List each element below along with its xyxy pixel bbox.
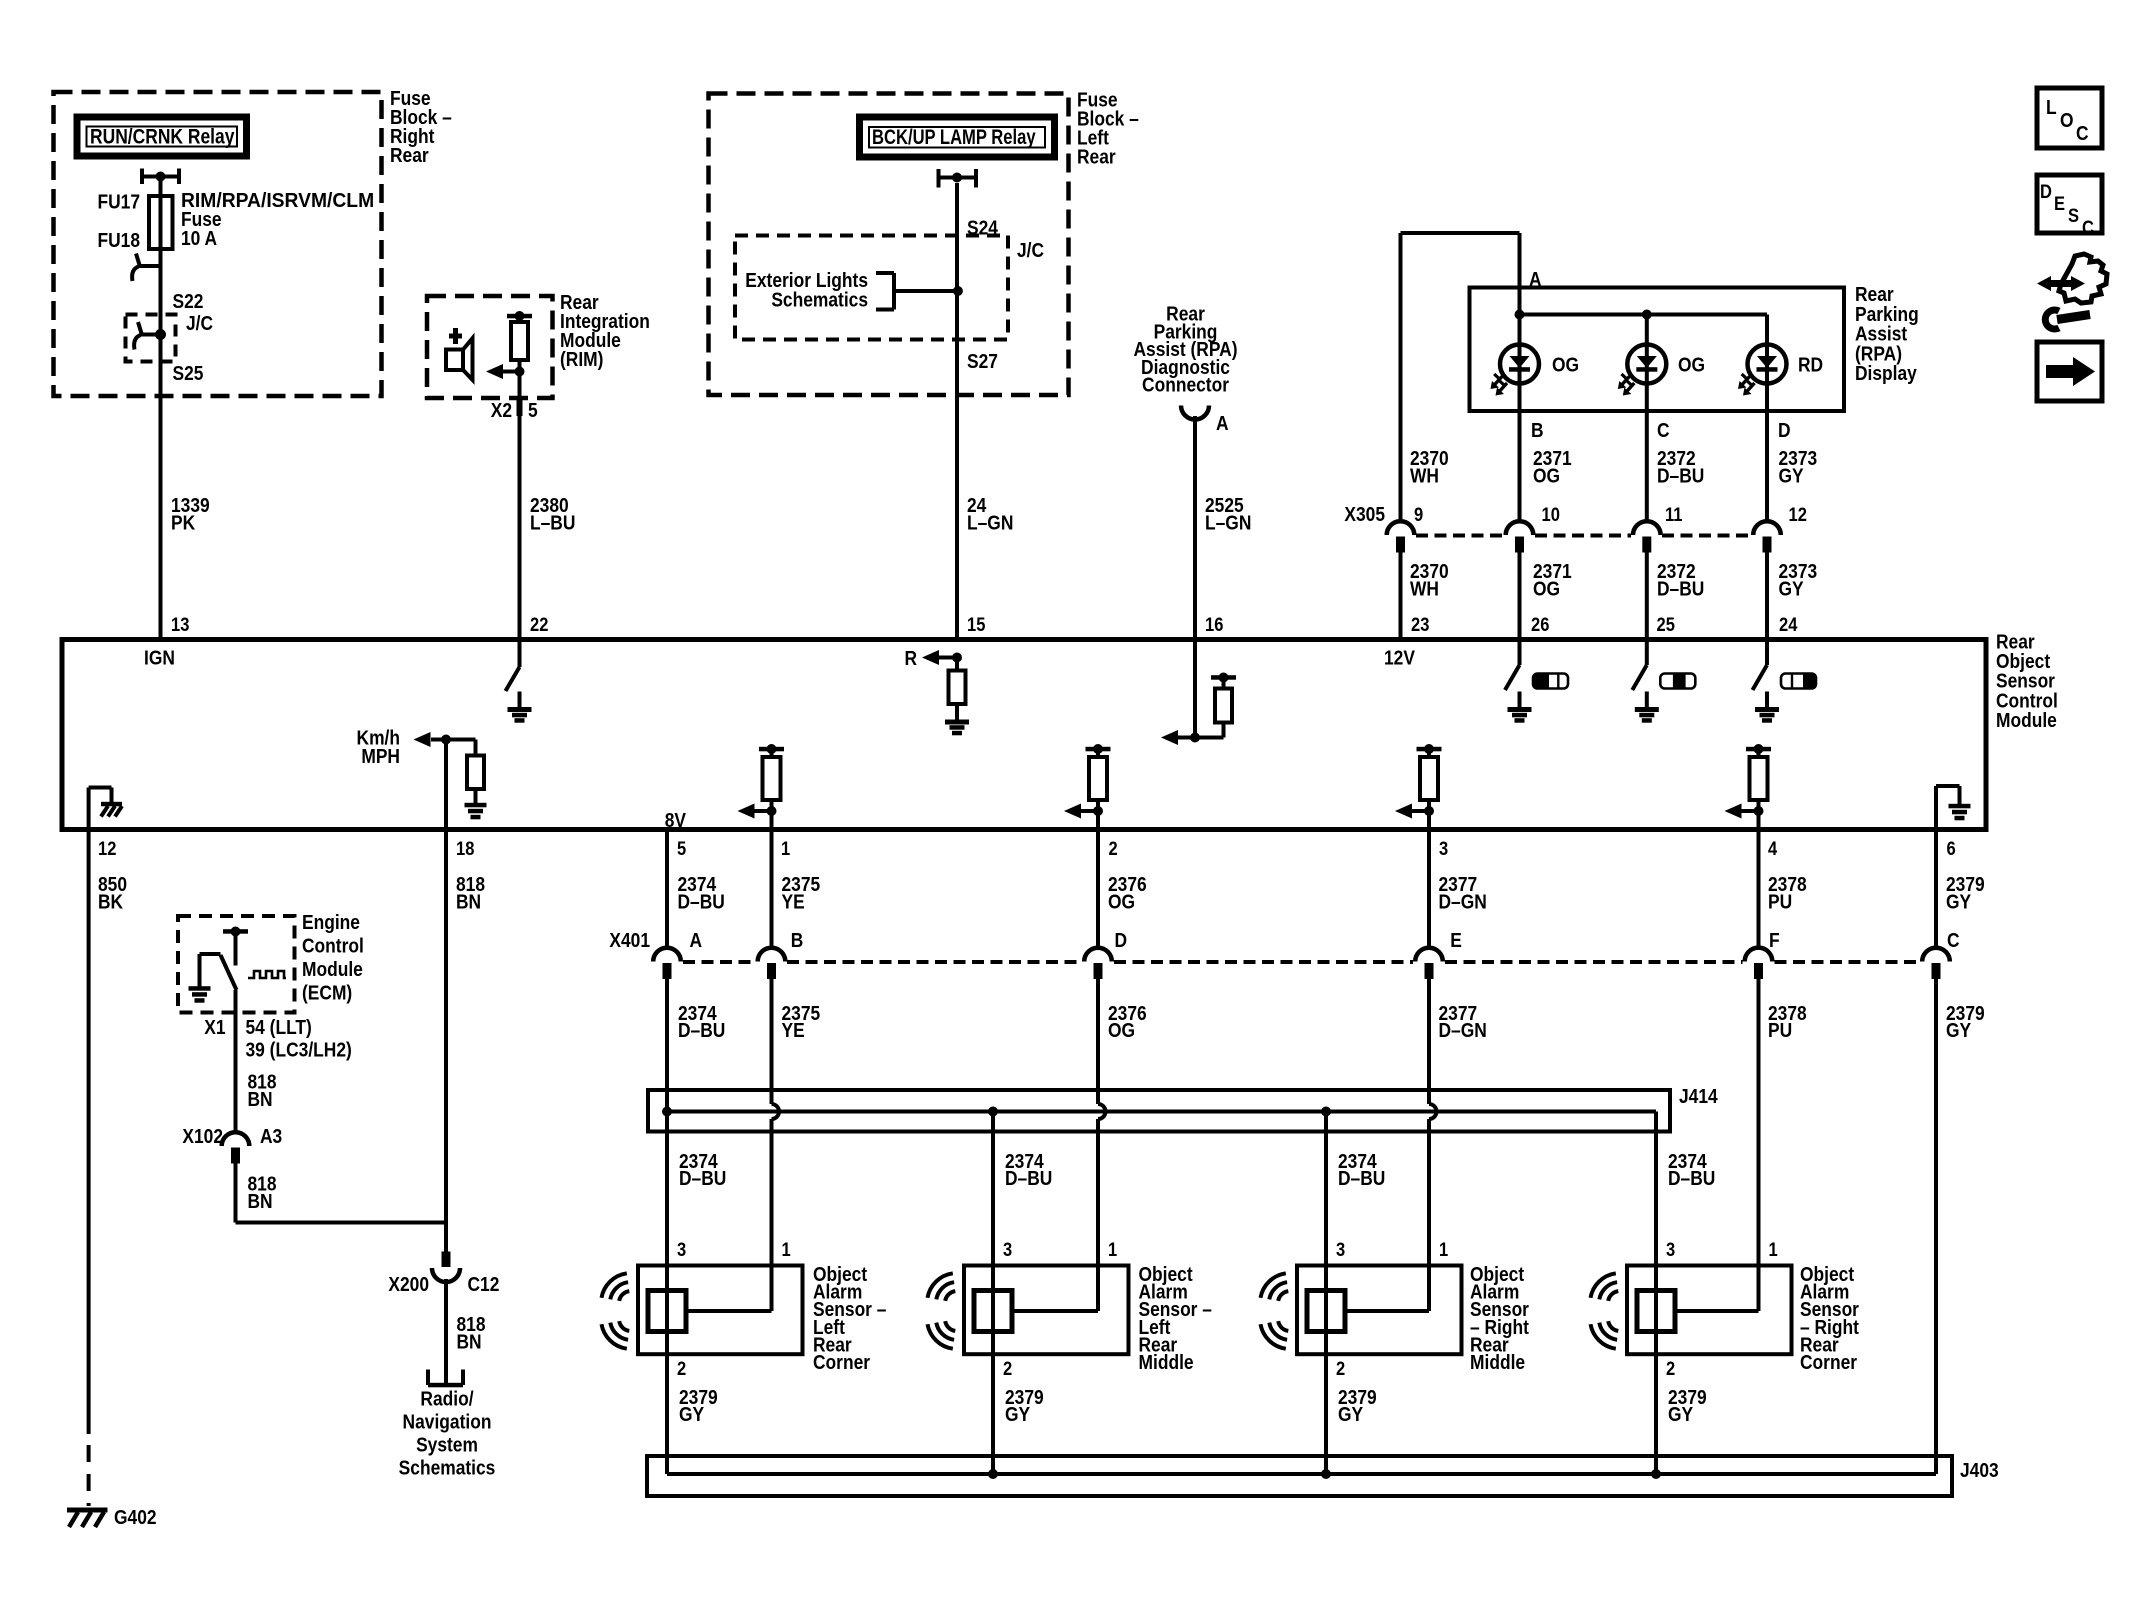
svg-text:(ECM): (ECM)	[302, 981, 352, 1003]
svg-text:25: 25	[1657, 614, 1675, 635]
svg-text:X1: X1	[204, 1016, 225, 1038]
svg-text:24: 24	[1779, 614, 1797, 635]
svg-text:GY: GY	[1005, 1403, 1031, 1425]
wire 2379 from sensor 4 pin 2	[1654, 1354, 1658, 1474]
svg-text:RUN/CRNK Relay: RUN/CRNK Relay	[90, 125, 234, 148]
svg-text:A: A	[690, 929, 703, 951]
connector X200 plug and cup C12	[442, 1252, 451, 1268]
J414 junction dots	[662, 1107, 672, 1117]
svg-text:FU17: FU17	[97, 190, 140, 212]
svg-text:O: O	[2060, 109, 2074, 131]
wire pin 23 stub	[1399, 640, 1403, 643]
wire 2376 to sensor 2 pin 1 with hop over J414	[1096, 978, 1100, 1104]
svg-text:D–BU: D–BU	[678, 890, 725, 912]
wire 24 vertical	[955, 183, 959, 640]
ECM PWM signal glyph	[248, 971, 286, 978]
splice pack J414 box	[648, 1090, 1670, 1132]
engine control module ECM (dashed box)	[178, 916, 295, 1013]
wire 2376 OG from pin 2	[1096, 830, 1100, 949]
wire 2375 YE from pin 1	[770, 830, 774, 949]
fuse block - left rear (dashed box)	[709, 94, 1069, 396]
internal speed signal arrow Km/h MPH at pin 18	[444, 740, 448, 830]
J403 junction dots	[988, 1469, 998, 1479]
wire 2370 feeder from display pin A	[1399, 233, 1403, 522]
svg-text:Corner: Corner	[813, 1351, 870, 1373]
RIM internal resistor	[518, 316, 522, 322]
wire 2378 PU from pin 4	[1757, 830, 1761, 949]
svg-text:Schematics: Schematics	[771, 288, 868, 310]
wire 2374 to J414	[665, 978, 669, 1112]
connector X401 cavity C	[1922, 948, 1950, 962]
internal switch at pin 26 with indicator and ground	[1518, 640, 1522, 666]
object alarm sensor 4 box	[1627, 1266, 1792, 1355]
svg-text:Navigation: Navigation	[403, 1410, 492, 1432]
svg-text:3: 3	[677, 1239, 686, 1260]
sensor 4 internal wire pin1	[1757, 1266, 1761, 1312]
internal sensor drive resistor at pin 1	[759, 747, 784, 752]
RIM internal terminal	[507, 314, 532, 319]
svg-text:1: 1	[1439, 1239, 1448, 1260]
svg-text:GY: GY	[1779, 464, 1805, 486]
svg-text:15: 15	[967, 614, 985, 635]
svg-text:X305: X305	[1344, 503, 1385, 525]
svg-text:WH: WH	[1410, 464, 1439, 486]
svg-text:3: 3	[1336, 1239, 1345, 1260]
svg-text:D–GN: D–GN	[1439, 1019, 1487, 1041]
svg-text:F: F	[1769, 929, 1780, 951]
svg-text:9: 9	[1414, 504, 1423, 525]
svg-text:YE: YE	[782, 890, 805, 912]
svg-text:J403: J403	[1960, 1459, 1999, 1481]
svg-text:23: 23	[1411, 614, 1429, 635]
sensor 1 pin3 wire inside	[665, 1266, 669, 1355]
svg-text:S27: S27	[967, 350, 998, 372]
connector X305 cavity 9	[1387, 521, 1415, 535]
connector X305 cavity 10	[1506, 521, 1534, 535]
display internal bus wire	[1520, 313, 1768, 317]
wire 2377 D-GN from pin 3	[1427, 830, 1431, 949]
wires from X305 to module	[1399, 552, 1403, 640]
ground G402 chassis ground symbol	[67, 1508, 108, 1513]
diagnostic icon (car outline with arrow and wrench)	[2059, 254, 2107, 303]
LED 3 (RD)	[1765, 345, 1769, 383]
wire 2379 from sensor 3 pin 2	[1324, 1354, 1328, 1474]
display output wires B C D	[1518, 383, 1522, 522]
wire 2374 branch to sensor 3 pin 3	[1324, 1112, 1328, 1266]
svg-text:J414: J414	[1679, 1085, 1718, 1107]
svg-text:R: R	[904, 647, 917, 669]
svg-text:G402: G402	[114, 1506, 157, 1528]
LED wires inside display	[1518, 288, 1522, 345]
wire X1 output of ECM	[234, 990, 238, 1134]
svg-text:C: C	[2082, 217, 2094, 238]
node S22 junction dot and clip terminal	[155, 329, 166, 340]
svg-text:RD: RD	[1798, 353, 1823, 375]
internal resistor with terminal at pin 16	[1211, 675, 1236, 680]
object alarm sensor 1 box	[638, 1266, 803, 1355]
sensor 4 pin3 wire inside	[1654, 1266, 1658, 1355]
svg-text:C: C	[2076, 122, 2089, 144]
LED 1 (OG)	[1518, 345, 1522, 383]
svg-text:OG: OG	[1108, 1019, 1135, 1041]
sensor 2 internal wire pin1	[1096, 1266, 1100, 1312]
svg-text:X102: X102	[182, 1125, 223, 1147]
wire 2377 to sensor 3 pin 1 with hop over J414	[1427, 978, 1431, 1104]
svg-text:GY: GY	[1779, 577, 1805, 599]
J403 internal bus wire	[667, 1472, 1936, 1476]
svg-text:12V: 12V	[1384, 646, 1415, 668]
J414 internal bus wire	[667, 1110, 1656, 1114]
connector X401 cavity E	[1415, 948, 1443, 962]
sensor 3 transducer square	[1307, 1291, 1345, 1332]
svg-text:5: 5	[528, 399, 538, 421]
svg-text:C12: C12	[468, 1273, 500, 1295]
sensor 1 transducer square	[648, 1291, 686, 1332]
svg-text:D: D	[1115, 929, 1128, 951]
svg-text:Module: Module	[1996, 709, 2057, 731]
svg-text:1: 1	[1108, 1239, 1117, 1260]
wire 2374 branch to sensor 1 pin 3	[665, 1112, 669, 1266]
svg-text:L–BU: L–BU	[530, 511, 575, 533]
internal switch at pin 25 with indicator and ground	[1645, 640, 1649, 666]
internal chassis ground at pin 6	[1934, 786, 1938, 830]
svg-text:System: System	[416, 1433, 478, 1455]
svg-text:OG: OG	[1108, 890, 1135, 912]
svg-text:13: 13	[171, 614, 189, 635]
ECM internal terminal	[223, 929, 248, 934]
svg-text:6: 6	[1947, 838, 1956, 859]
svg-text:BN: BN	[456, 890, 481, 912]
rear object sensor control module box	[62, 640, 1986, 830]
internal switch at pin 24 with indicator and ground	[1765, 640, 1769, 666]
svg-text:GY: GY	[1668, 1403, 1694, 1425]
wire 1339 vertical	[159, 181, 163, 640]
internal sensor drive resistor at pin 4	[1746, 747, 1771, 752]
wire 818 BN elbow to radio feed	[234, 1164, 238, 1223]
wire 850 BK dashed tail	[87, 1445, 91, 1506]
svg-text:26: 26	[1531, 614, 1549, 635]
svg-text:C: C	[1947, 929, 1960, 951]
svg-text:E: E	[2054, 193, 2065, 214]
wire 2380 vertical	[518, 360, 522, 640]
svg-text:11: 11	[1665, 504, 1683, 525]
wire to radio navigation bracket	[444, 1279, 448, 1385]
svg-text:D–BU: D–BU	[679, 1167, 726, 1189]
internal resistor to ground at pin 18	[474, 740, 478, 756]
svg-text:2: 2	[1109, 838, 1118, 859]
radio navigation off-page bracket	[428, 1383, 463, 1388]
svg-text:Radio/: Radio/	[420, 1387, 474, 1409]
svg-text:D–BU: D–BU	[1657, 464, 1704, 486]
internal sensor drive resistor at pin 2	[1086, 747, 1111, 752]
svg-text:C: C	[1657, 419, 1670, 441]
fuse block - right rear (dashed box)	[54, 92, 382, 396]
svg-text:B: B	[791, 929, 804, 951]
bus junction dots	[1515, 310, 1525, 320]
svg-text:12: 12	[1789, 504, 1807, 525]
svg-text:X401: X401	[609, 929, 650, 951]
svg-text:2: 2	[677, 1358, 686, 1379]
wire 2374 branch to sensor 2 pin 3	[991, 1112, 995, 1266]
connector X401 cavity F	[1745, 948, 1773, 962]
svg-text:8V: 8V	[665, 809, 687, 831]
sensor 1 sonar waves	[619, 1291, 629, 1301]
sensor 1 internal wire pin1	[770, 1266, 774, 1312]
svg-text:D: D	[1778, 419, 1791, 441]
svg-text:BN: BN	[248, 1088, 273, 1110]
svg-text:D–BU: D–BU	[1657, 577, 1704, 599]
svg-text:PK: PK	[171, 511, 196, 533]
junction J/C box at S22	[126, 315, 176, 362]
internal switch at pin 22 with ground	[518, 640, 522, 668]
svg-text:E: E	[1450, 929, 1462, 951]
svg-text:J/C: J/C	[1017, 239, 1044, 261]
ECM internal switch to ground	[198, 954, 202, 987]
svg-text:10 A: 10 A	[181, 227, 218, 249]
svg-text:Middle: Middle	[1139, 1351, 1194, 1373]
svg-text:D–BU: D–BU	[1668, 1167, 1715, 1189]
svg-text:22: 22	[530, 614, 548, 635]
svg-text:S: S	[2068, 205, 2079, 226]
junction J/C box at S24/S27	[735, 236, 1008, 340]
svg-text:16: 16	[1205, 614, 1223, 635]
wire 2379 GY from pin 6	[1934, 830, 1938, 949]
connector X401 dashed line	[683, 960, 756, 964]
svg-text:OG: OG	[1533, 464, 1560, 486]
connector X401 cavity D	[1084, 948, 1112, 962]
svg-text:D–GN: D–GN	[1439, 890, 1487, 912]
LED 2 (OG)	[1645, 345, 1649, 383]
svg-text:Connector: Connector	[1142, 373, 1229, 395]
svg-text:D–BU: D–BU	[1338, 1167, 1385, 1189]
relay K: BCK/UP LAMP Relay box	[860, 117, 1055, 157]
sensor 2 transducer square	[974, 1291, 1012, 1332]
sensor 3 sonar waves	[1278, 1291, 1288, 1301]
DESC icon box	[2037, 175, 2102, 233]
wire 2378 to sensor 4 pin 1	[1757, 978, 1761, 1266]
svg-text:PU: PU	[1768, 890, 1792, 912]
sensor 4 sonar waves	[1608, 1291, 1618, 1301]
connector X102 cavity A3	[222, 1132, 250, 1146]
svg-text:MPH: MPH	[361, 745, 400, 767]
svg-text:IGN: IGN	[144, 646, 175, 668]
relay terminal bracket	[140, 169, 144, 185]
connector X305 cavity 11	[1633, 521, 1661, 535]
svg-text:12: 12	[98, 838, 116, 859]
internal sensor drive resistor at pin 3	[1417, 747, 1442, 752]
svg-text:Middle: Middle	[1470, 1351, 1525, 1373]
svg-text:Corner: Corner	[1800, 1351, 1857, 1373]
svg-text:3: 3	[1003, 1239, 1012, 1260]
next-page arrow icon box	[2037, 342, 2102, 401]
sensor 3 pin3 wire inside	[1324, 1266, 1328, 1355]
wire 2379 from sensor 1 pin 2	[665, 1354, 669, 1474]
svg-text:GY: GY	[1338, 1403, 1364, 1425]
svg-text:OG: OG	[1533, 577, 1560, 599]
RIM output node dot and arrow	[515, 367, 525, 377]
svg-text:L–GN: L–GN	[967, 511, 1013, 533]
fuse holder clip terminal	[138, 264, 161, 268]
node S24/S27 junction dot	[953, 286, 963, 296]
svg-text:X200: X200	[388, 1273, 429, 1295]
svg-text:GY: GY	[1946, 1019, 1972, 1041]
connector X401 cavity A	[653, 948, 681, 962]
connector X401 cavity B	[758, 948, 786, 962]
svg-text:L: L	[2046, 96, 2057, 118]
svg-text:FU18: FU18	[97, 229, 140, 251]
svg-text:Rear: Rear	[390, 144, 429, 166]
wire 2375 to sensor 1 pin 1 with hop over J414	[770, 978, 774, 1104]
svg-text:1: 1	[1769, 1239, 1778, 1260]
svg-text:L–GN: L–GN	[1205, 511, 1251, 533]
svg-text:(RIM): (RIM)	[560, 348, 603, 370]
svg-text:Engine: Engine	[302, 911, 360, 933]
svg-text:A3: A3	[260, 1125, 282, 1147]
svg-text:GY: GY	[679, 1403, 705, 1425]
relay K: RUN/CRNK Relay box	[77, 117, 247, 156]
svg-text:A: A	[1216, 412, 1229, 434]
svg-text:Control: Control	[302, 934, 364, 956]
svg-text:54 (LLT): 54 (LLT)	[246, 1016, 312, 1038]
connector X305 dashed line	[1416, 534, 1504, 538]
object alarm sensor 2 box	[964, 1266, 1129, 1355]
svg-text:18: 18	[456, 838, 474, 859]
internal resistor to ground at pin 15	[955, 658, 959, 671]
svg-text:WH: WH	[1410, 577, 1439, 599]
svg-text:GY: GY	[1946, 890, 1972, 912]
sensor 4 transducer square	[1637, 1291, 1675, 1332]
LOC icon box	[2037, 88, 2102, 148]
internal wire pin 16 with arrow	[1193, 640, 1197, 738]
relay terminal bracket	[937, 169, 941, 188]
fuse FU17/FU18 RIM/RPA/ISRVM/CLM 10A	[149, 196, 173, 249]
svg-text:S22: S22	[173, 290, 204, 312]
wire 2374 D-BU from pin 5	[665, 830, 669, 949]
svg-text:3: 3	[1439, 838, 1448, 859]
svg-text:BN: BN	[248, 1190, 273, 1212]
svg-text:5: 5	[677, 838, 686, 859]
connector X305 cavity 12	[1753, 521, 1781, 535]
svg-text:OG: OG	[1678, 353, 1705, 375]
svg-text:BN: BN	[457, 1330, 482, 1352]
svg-text:X2: X2	[491, 399, 512, 421]
net R arrow at pin 15	[952, 653, 962, 663]
svg-text:1: 1	[782, 1239, 791, 1260]
svg-text:D: D	[2040, 181, 2052, 202]
sensor 2 sonar waves	[945, 1291, 955, 1301]
svg-text:Module: Module	[302, 958, 363, 980]
svg-text:B: B	[1531, 419, 1544, 441]
svg-text:S25: S25	[173, 362, 204, 384]
wire 850 BK from pin 12	[87, 830, 91, 1435]
svg-text:39 (LC3/LH2): 39 (LC3/LH2)	[246, 1038, 352, 1060]
wire 2379 to J403	[1934, 978, 1938, 1474]
svg-text:3: 3	[1666, 1239, 1675, 1260]
exterior lights schematics bracket	[892, 273, 896, 310]
svg-text:Rear: Rear	[1077, 145, 1116, 167]
svg-text:2: 2	[1003, 1358, 1012, 1379]
connector X2 pin 5 tick and labels	[517, 400, 523, 416]
splice pack J403 box	[647, 1456, 1952, 1496]
rear integration module RIM (dashed box)	[427, 296, 553, 398]
svg-text:J/C: J/C	[186, 312, 213, 334]
wire 2374 branch to sensor 4 pin 3	[1654, 1132, 1658, 1266]
svg-text:2: 2	[1336, 1358, 1345, 1379]
speaker icon with + sign	[449, 334, 462, 339]
svg-text:10: 10	[1542, 504, 1560, 525]
sensor 2 pin3 wire inside	[991, 1266, 995, 1355]
svg-text:1: 1	[781, 838, 790, 859]
wire 2525 vertical	[1193, 416, 1197, 640]
module top pin wires 13 22 15 16 entering	[159, 637, 163, 640]
RPA diagnostic connector cup	[1181, 406, 1209, 420]
svg-text:BK: BK	[98, 890, 124, 912]
internal chassis ground at pin 12	[87, 788, 91, 830]
svg-text:BCK/UP LAMP Relay: BCK/UP LAMP Relay	[872, 126, 1036, 149]
svg-text:Display: Display	[1855, 362, 1917, 384]
svg-text:D–BU: D–BU	[678, 1019, 725, 1041]
sensor 3 internal wire pin1	[1427, 1266, 1431, 1312]
svg-text:2: 2	[1666, 1358, 1675, 1379]
svg-text:4: 4	[1768, 838, 1777, 859]
wire 818 BN from pin 18	[444, 830, 448, 1252]
svg-text:Schematics: Schematics	[399, 1456, 496, 1478]
wire 2379 from sensor 2 pin 2	[991, 1354, 995, 1474]
svg-text:PU: PU	[1768, 1019, 1792, 1041]
svg-text:D–BU: D–BU	[1005, 1167, 1052, 1189]
object alarm sensor 3 box	[1297, 1266, 1462, 1355]
svg-text:YE: YE	[782, 1019, 805, 1041]
rear parking assist display box	[1470, 288, 1845, 412]
svg-text:OG: OG	[1552, 353, 1579, 375]
